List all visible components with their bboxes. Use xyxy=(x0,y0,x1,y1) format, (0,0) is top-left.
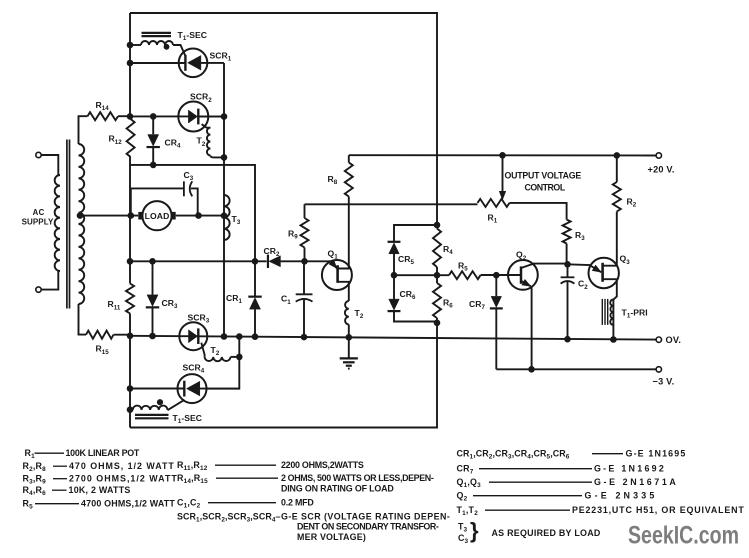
svg-text:AS REQUIRED BY LOAD: AS REQUIRED BY LOAD xyxy=(492,528,601,538)
svg-text:2 OHMS, 500 WATTS OR LESS,DEPE: 2 OHMS, 500 WATTS OR LESS,DEPEN- xyxy=(281,473,434,483)
svg-text:4700 OHMS,1/2 WATT: 4700 OHMS,1/2 WATT xyxy=(81,499,175,509)
svg-text:G-E 1N1695: G-E 1N1695 xyxy=(626,449,686,459)
svg-text:G-E 2N335: G-E 2N335 xyxy=(585,491,655,501)
svg-text:DENT ON SECONDARY TRANSFOR-: DENT ON SECONDARY TRANSFOR- xyxy=(297,522,439,532)
svg-text:OUTPUT VOLTAGE: OUTPUT VOLTAGE xyxy=(505,171,582,181)
svg-text:SeekIC.com: SeekIC.com xyxy=(628,522,739,550)
svg-text:CONTROL: CONTROL xyxy=(525,182,566,192)
svg-text:G-E 1N1692: G-E 1N1692 xyxy=(594,464,664,474)
svg-text:SUPPLY: SUPPLY xyxy=(22,218,54,227)
svg-text:LOAD: LOAD xyxy=(145,211,170,221)
svg-text:10K, 2 WATTS: 10K, 2 WATTS xyxy=(69,485,131,495)
svg-text:+20 V.: +20 V. xyxy=(648,165,675,175)
svg-text:−3 V.: −3 V. xyxy=(653,376,675,386)
svg-text:OV.: OV. xyxy=(666,335,682,345)
svg-text:MER VOLTAGE): MER VOLTAGE) xyxy=(297,532,366,542)
svg-text:470 OHMS, 1/2 WATT: 470 OHMS, 1/2 WATT xyxy=(69,461,174,471)
svg-text:AC: AC xyxy=(33,208,45,217)
svg-text:0.2 MFD: 0.2 MFD xyxy=(281,498,314,508)
svg-text:G-E 2N1671A: G-E 2N1671A xyxy=(594,477,676,487)
svg-text:PE2231,UTC H51, OR EQUIVALENT: PE2231,UTC H51, OR EQUIVALENT xyxy=(572,505,744,515)
svg-text:DING ON RATING OF LOAD: DING ON RATING OF LOAD xyxy=(281,484,394,494)
svg-text:}: } xyxy=(470,518,479,543)
svg-text:G-E SCR (VOLTAGE RATING DEPEN-: G-E SCR (VOLTAGE RATING DEPEN- xyxy=(281,511,450,521)
svg-text:2200 OHMS,2WATTS: 2200 OHMS,2WATTS xyxy=(281,460,364,470)
svg-text:2700 OHMS,1/2 WATT: 2700 OHMS,1/2 WATT xyxy=(69,474,177,484)
svg-text:100K LINEAR POT: 100K LINEAR POT xyxy=(66,448,140,458)
